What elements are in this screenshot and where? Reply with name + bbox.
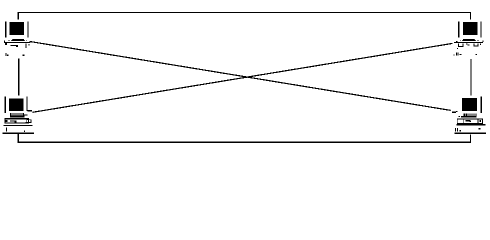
wire stub up from node TL [18, 12, 19, 20]
wire right link TR-BR [470, 59, 471, 96]
wire stub down from node BL [18, 134, 19, 143]
workstation node BL [2, 97, 34, 134]
workstation node TL [4, 22, 31, 56]
wire diagonal link BL-TR [33, 43, 453, 112]
workstation node TR [453, 22, 483, 56]
wire top link TL-TR [18, 12, 472, 13]
wire diagonal link TL-BR [31, 42, 451, 111]
wire bottom link BL-BR [17, 142, 471, 143]
wire stub down from node BR [470, 134, 471, 143]
workstation node BR [452, 97, 486, 134]
wire stub up from node TR [470, 12, 471, 20]
wire left link TL-BL [18, 59, 19, 96]
